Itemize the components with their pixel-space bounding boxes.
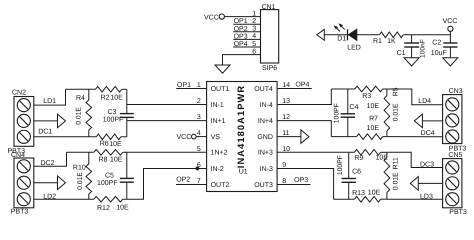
capacitor C1 100nF [411, 35, 413, 43]
LED D1 [347, 29, 349, 40]
ground (below C2) [443, 58, 458, 66]
wire CN1 pin 1 to VCC [224, 16, 260, 18]
svg-text:IN-3: IN-3 [260, 166, 273, 173]
resistor R6 10E [96, 134, 121, 140]
op-amp U1 INA4180A1PWR [207, 82, 278, 192]
svg-text:VCC: VCC [204, 14, 219, 21]
svg-text:R1: R1 [373, 38, 382, 45]
connector CN4 [14, 158, 34, 208]
svg-text:DC4: DC4 [421, 130, 435, 137]
svg-text:VCC: VCC [177, 134, 192, 141]
svg-text:CN5: CN5 [448, 152, 462, 159]
ground (below CN1) [215, 65, 230, 73]
svg-text:R10: R10 [73, 165, 86, 172]
wire top rail 4 [331, 88, 354, 90]
svg-text:100PF: 100PF [103, 116, 124, 123]
svg-text:LD4: LD4 [418, 98, 431, 105]
svg-text:CN4: CN4 [11, 152, 25, 159]
ground (U1 pin 11 GND) [301, 130, 309, 144]
resistor R8 10E [94, 150, 123, 156]
svg-text:GND: GND [257, 134, 273, 141]
svg-text:OP2: OP2 [176, 176, 190, 183]
svg-text:R13: R13 [352, 190, 365, 197]
wire CN3 pin 2 to ground [422, 120, 442, 122]
svg-text:U1: U1 [239, 169, 248, 176]
svg-text:C2: C2 [432, 40, 441, 47]
svg-text:R6: R6 [100, 141, 109, 148]
wire R13 to shunt R11 [381, 198, 387, 200]
svg-text:VCC: VCC [443, 18, 458, 25]
svg-text:D1: D1 [337, 36, 346, 43]
svg-text:R3: R3 [362, 93, 371, 100]
svg-text:IN-2: IN-2 [211, 166, 224, 173]
capacitor C2 10uF [449, 35, 451, 43]
svg-text:CN3: CN3 [449, 88, 463, 95]
wire U1 pin 9 IN-3 to filter [277, 169, 334, 200]
svg-text:C4: C4 [349, 104, 358, 111]
capacitor C4 100PF [347, 89, 349, 114]
svg-text:R2: R2 [101, 94, 110, 101]
svg-text:OP4: OP4 [295, 81, 309, 88]
wire R7 to shunt R5 [383, 136, 387, 138]
svg-text:10E: 10E [110, 94, 123, 101]
svg-text:C3: C3 [108, 109, 117, 116]
capacitor C6 100PF [348, 152, 350, 178]
svg-text:R7: R7 [369, 116, 378, 123]
ground (below C1) [404, 58, 419, 66]
svg-text:IN-1: IN-1 [211, 102, 224, 109]
svg-text:10E: 10E [110, 157, 123, 164]
svg-text:CN2: CN2 [12, 90, 26, 97]
svg-text:OUT1: OUT1 [211, 86, 230, 93]
wire R12 to U1 pin 6 IN-2 [123, 169, 207, 200]
wire filter to U1 pin 2 IN-1 [127, 104, 207, 106]
wire CN1 pin 6 to ground [223, 55, 261, 65]
svg-text:PBT3: PBT3 [11, 208, 29, 215]
svg-text:R11: R11 [392, 157, 399, 169]
wire R6 to filter rail [121, 136, 127, 138]
svg-text:INA4180A1PWR: INA4180A1PWR [236, 85, 246, 168]
svg-text:OUT3: OUT3 [254, 182, 273, 189]
wire bottom rail 4 [331, 136, 356, 138]
ground (CN4 pin 2) [58, 176, 66, 190]
svg-text:10E: 10E [368, 190, 381, 197]
wire U1 pin 10 IN+3 to filter [277, 151, 354, 153]
svg-text:IN+3: IN+3 [258, 150, 273, 157]
svg-text:10E: 10E [367, 125, 380, 132]
wire shunt top rail 2 [67, 151, 94, 153]
wire R3 to shunt R5 [383, 88, 387, 90]
svg-text:PBT3: PBT3 [449, 209, 467, 216]
svg-text:C6: C6 [352, 168, 361, 175]
wire R1 to supply node [403, 34, 450, 36]
svg-text:R4: R4 [76, 95, 85, 102]
resistor R10 0.01E (shunt) [88, 152, 90, 164]
svg-text:IN-4: IN-4 [260, 102, 273, 109]
capacitor C3 100PF (filter rail) [126, 89, 128, 113]
wire bottom rail 3 [334, 198, 355, 200]
svg-text:OUT2: OUT2 [211, 182, 230, 189]
connector CN1 [261, 10, 279, 63]
svg-text:1: 1 [252, 10, 256, 17]
svg-text:OP1: OP1 [177, 82, 191, 89]
resistor R4 0.01E (shunt) [88, 89, 90, 100]
svg-text:0.01E: 0.01E [392, 172, 399, 190]
ground (CN5 pin 2) [410, 177, 418, 191]
screw terminals CN3 [446, 98, 459, 111]
resistor R3 10E [355, 86, 383, 92]
svg-text:10E: 10E [109, 141, 122, 148]
capacitor C5 100PF (filter rail 2) [126, 152, 128, 178]
resistor R11 0.01E (shunt) [386, 152, 388, 157]
svg-text:IN+4: IN+4 [258, 118, 273, 125]
svg-text:10E: 10E [367, 103, 380, 110]
resistor R2 10E [96, 87, 122, 93]
svg-text:0.01E: 0.01E [77, 172, 84, 190]
svg-text:R12: R12 [97, 205, 110, 212]
svg-text:OP3: OP3 [294, 177, 308, 184]
connector CN2 [14, 97, 34, 147]
svg-text:IN+1: IN+1 [211, 118, 226, 125]
wire U1 pin 13 IN-4 to filter [277, 89, 331, 105]
resistor R12 10E [94, 196, 123, 202]
svg-text:LD1: LD1 [43, 98, 56, 105]
connector CN5 [443, 159, 462, 208]
ground (left of D1) [317, 29, 325, 40]
svg-text:1N+2: 1N+2 [211, 150, 228, 157]
svg-text:CN1: CN1 [262, 4, 276, 11]
wire R8 to U1 pin 5 1N+2 [123, 151, 207, 153]
screw terminals CN2 [17, 99, 30, 112]
svg-text:R9: R9 [354, 155, 363, 162]
svg-text:100PF: 100PF [337, 155, 344, 175]
ground (CN3 pin 2) [414, 114, 422, 128]
junction on pin 6 wire [196, 167, 199, 170]
svg-text:0.01E: 0.01E [75, 107, 82, 125]
resistor R5 0.01E (shunt) [386, 89, 388, 96]
svg-text:VS: VS [211, 134, 221, 141]
wire filter to U1 pin 3 IN+1 [127, 120, 207, 122]
svg-text:0.01E: 0.01E [393, 103, 400, 121]
resistor R7 10E [357, 134, 383, 140]
wire R9 to shunt R11 [381, 151, 387, 153]
wire shunt top rail [66, 88, 96, 90]
ground (CN2 pin 2) [58, 114, 66, 128]
wire U1 pin 12 IN+4 to filter [277, 121, 331, 137]
svg-text:10uF: 10uF [431, 50, 447, 57]
svg-text:DC1: DC1 [38, 128, 52, 135]
wire U1 pin 11 to ground [277, 136, 301, 138]
wire CN5 pin 2 to ground [418, 182, 442, 184]
resistor R9 10E [354, 150, 380, 156]
svg-text:SIP6: SIP6 [262, 65, 277, 72]
svg-text:LED: LED [347, 44, 361, 51]
screw terminals CN4 [17, 160, 30, 173]
wire ground to D1 cathode [324, 34, 347, 36]
svg-text:OUT4: OUT4 [254, 86, 273, 93]
svg-text:R8: R8 [99, 157, 108, 164]
connector CN3 [443, 95, 462, 144]
resistor R1 1K [379, 32, 403, 38]
svg-text:10E: 10E [116, 205, 129, 212]
svg-text:100PF: 100PF [334, 103, 341, 123]
wire D1 anode to R1 [357, 34, 380, 36]
resistor R13 10E [354, 196, 380, 202]
wire R2 to filter rail [122, 88, 127, 90]
svg-text:C1: C1 [397, 50, 406, 57]
wire CN2 pin 2 to ground [34, 120, 58, 122]
screw terminals CN5 [446, 161, 459, 174]
svg-text:100PF: 100PF [97, 180, 118, 187]
svg-text:1K: 1K [387, 38, 396, 45]
svg-text:C5: C5 [105, 172, 114, 179]
wire CN4 pin 2 to ground [34, 182, 58, 184]
svg-text:100nF: 100nF [419, 39, 426, 58]
